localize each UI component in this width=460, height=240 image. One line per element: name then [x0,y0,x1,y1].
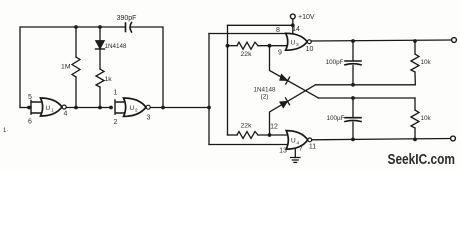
wire line A to +10V node [228,24,293,26]
svg-text:U: U [130,105,135,112]
svg-text:1: 1 [114,90,118,97]
svg-text:14: 14 [292,26,300,33]
junction dot at U2 output tee [207,106,211,110]
svg-text:4: 4 [64,111,68,118]
pin 14 wire to +10V [292,19,294,34]
wire pin 13 line [209,144,290,146]
svg-text:100µF: 100µF [327,115,345,122]
svg-text:12: 12 [270,123,278,130]
svg-text:(2): (2) [261,93,269,100]
svg-text:7: 7 [299,146,303,153]
junction dot U2 input [109,106,113,110]
svg-text:13: 13 [279,148,287,155]
NOR gate U4 body [286,131,308,150]
wire pin 8 line [209,33,289,35]
output terminal top right [452,38,457,43]
NOR gate U3 output bubble [307,40,311,44]
svg-text:10: 10 [306,46,314,53]
junction dot 22k top left [226,44,230,48]
svg-text:6: 6 [28,119,32,126]
svg-text:1k: 1k [105,76,113,83]
svg-text:2: 2 [135,108,138,114]
svg-text:8: 8 [276,27,280,34]
resistor R4 22k (bottom, horizontal) [228,134,238,136]
svg-text:9: 9 [278,50,282,57]
svg-text:4: 4 [297,140,300,146]
svg-text:2: 2 [114,119,118,126]
svg-text:U: U [291,138,296,145]
junction dot 22k bottom right / pin12 [268,133,272,137]
svg-text:+10V: +10V [298,14,315,21]
svg-text:390pF: 390pF [117,15,137,22]
top output rail from U3 pin 10 [311,40,452,41]
svg-text:11: 11 [309,144,316,151]
svg-text:10k: 10k [421,115,432,122]
NOR gate U2 input bar [115,100,127,114]
svg-text:SeekIC.com: SeekIC.com [388,152,456,168]
NOR gate U4 output bubble [308,138,312,142]
NOR gate U1 body [41,98,63,116]
wire into U1 input [20,107,31,109]
junction dot at cap feedback / U2 output [161,106,165,110]
svg-text:3: 3 [296,42,299,48]
wire top rail right segment (cap to corner, down to U2 output node) [132,27,164,108]
resistor R1 1M (vertical) [75,27,77,108]
svg-text:5: 5 [28,94,32,101]
svg-text:3: 3 [147,115,151,122]
pin 7 wire [294,149,296,157]
diode D2 1N4148 (from pin9 node diagonal down-right) [270,46,319,98]
NOR gate U1 input bar [31,101,43,115]
+10V terminal circle [290,14,295,19]
svg-text:U: U [46,105,51,112]
svg-text:22k: 22k [241,123,253,130]
junction dots on top rail [74,25,78,29]
upper middle line (to top cap bottom and top 10k bottom) [316,84,416,86]
output terminal bottom right [451,136,456,141]
bottom output rail from U4 pin 11 [312,139,451,140]
capacitor C2 100pF (top) [352,41,354,60]
resistor R3 22k (top, horizontal) [228,45,238,47]
wire U2 output node [151,107,210,109]
NOR gate U1 output bubble [62,105,66,109]
svg-text:22k: 22k [241,51,253,58]
node line U1 output to U2 input [66,107,111,109]
NOR gate U2 output bubble [146,105,150,109]
junction dots bottom rail [351,138,355,142]
capacitor C1 390pF (series in top rail) [125,23,127,32]
NOR gate U3 body [286,33,308,50]
svg-text:1·: 1· [3,128,8,134]
capacitor C3 100uF (bottom) [352,98,354,117]
svg-text:U: U [291,39,296,46]
vertical +10V feed bus [227,25,229,135]
vertical bus from U2 output up to pin8 line and down to pin13 line [208,34,210,145]
resistor R5 10k (top) [414,41,416,54]
junction dots top rail [351,39,355,43]
junction dot cap3 top [351,96,355,100]
wire top rail left segment (top-left corner to cap) [20,27,125,108]
ground symbol [291,158,300,163]
junction dots on node line [27,106,31,110]
svg-text:1N4148: 1N4148 [105,43,128,50]
diode D1 1N4148 (vertical, anode top) [99,27,101,41]
resistor R2 1k (vertical, below D1) [96,69,104,87]
svg-text:1M: 1M [61,64,71,71]
svg-text:10k: 10k [421,59,432,66]
diode D3 1N4148 (from pin12 node diagonal up-right) [270,85,316,135]
svg-text:1: 1 [51,108,54,114]
svg-text:100pF: 100pF [326,59,344,66]
junction dot cap2 bottom [351,83,355,87]
junction dot on +10V pin14 vertical [291,23,295,27]
resistor R6 10k (bottom) [414,98,416,110]
NOR gate U2 body [124,98,147,116]
lower middle line (to bottom cap top and bottom 10k top) [319,97,416,99]
junction dot 22k top right / pin9 [268,44,272,48]
